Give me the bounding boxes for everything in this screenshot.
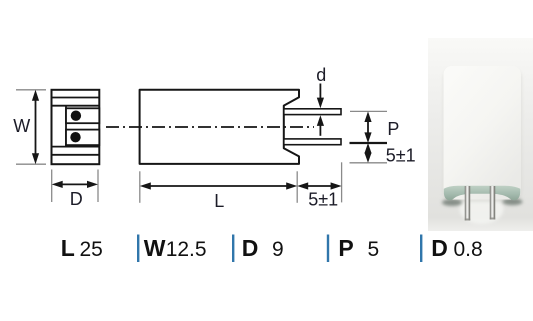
front view lower terminal tab	[66, 130, 99, 146]
svg-text:25: 25	[80, 238, 103, 261]
photo background	[428, 38, 533, 231]
svg-text:W: W	[13, 116, 30, 136]
photo right pin	[490, 186, 495, 220]
svg-text:d: d	[316, 65, 326, 85]
table separator 4	[420, 235, 422, 263]
upper lead dot	[71, 111, 81, 121]
front view bottom cap line 2	[52, 154, 100, 156]
5±1 bottom dimension line with arrows	[297, 182, 341, 189]
table separator 1	[137, 235, 139, 263]
svg-text:P: P	[387, 119, 399, 139]
front view bottom cap line 1	[52, 146, 100, 148]
svg-text:P: P	[338, 235, 353, 261]
side view body outline	[140, 90, 299, 164]
P dimension extension line top	[350, 110, 387, 112]
svg-text:L: L	[214, 191, 224, 211]
svg-text:9: 9	[272, 238, 284, 261]
photo bottom green band	[444, 186, 521, 201]
5±1 vertical dimension arrows	[364, 143, 371, 163]
D dimension extension line right	[97, 170, 99, 203]
photo bright patch between leads	[460, 194, 504, 224]
L dimension line with arrows	[140, 182, 297, 189]
photo shadow under feet	[442, 198, 523, 206]
svg-text:D: D	[70, 189, 83, 209]
top lead (side view)	[284, 109, 341, 115]
P dimension arrows	[364, 111, 371, 143]
center line	[106, 126, 314, 128]
front view terminal web vertical	[65, 106, 67, 147]
d dimension upper arrow	[317, 84, 324, 109]
5±1 extension line bottom	[350, 162, 388, 164]
photo left pin	[465, 186, 470, 221]
svg-text:L: L	[61, 235, 75, 261]
front view top cap line 1	[52, 97, 100, 99]
front view top cap line 2	[52, 105, 100, 107]
svg-text:12.5: 12.5	[166, 238, 207, 261]
photo right pin tip	[490, 218, 495, 220]
svg-text:W: W	[144, 235, 166, 261]
svg-text:5±1: 5±1	[386, 146, 416, 166]
front view body outline	[52, 90, 100, 164]
D dimension line with arrows	[52, 181, 98, 188]
svg-text:5±1: 5±1	[308, 190, 338, 210]
P / 5±1 shared dimension line	[350, 142, 388, 144]
front view upper terminal tab	[66, 108, 99, 123]
table separator 3	[327, 235, 329, 263]
photo ceramic body	[444, 66, 522, 200]
photo left pin tip	[465, 219, 470, 221]
W dimension extension line top	[16, 89, 46, 91]
lead end extension line	[341, 162, 343, 202]
W dimension extension line bottom	[16, 163, 46, 165]
d dimension lower arrow	[317, 115, 324, 136]
svg-text:0.8: 0.8	[454, 238, 483, 261]
D dimension extension line left	[51, 170, 53, 203]
table separator 2	[232, 235, 234, 263]
bottom lead (side view)	[284, 139, 341, 145]
lower lead dot	[70, 132, 80, 142]
svg-text:D: D	[242, 235, 259, 261]
svg-text:5: 5	[368, 238, 380, 261]
L dimension extension line left	[139, 171, 141, 203]
W dimension line with arrows	[32, 90, 39, 164]
photo body halo shadow	[443, 69, 522, 202]
L dimension extension line right	[296, 171, 298, 203]
svg-text:D: D	[431, 235, 448, 261]
